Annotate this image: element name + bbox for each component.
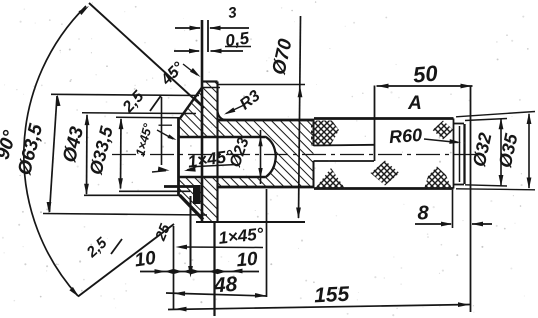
node dim50 arrow left	[377, 84, 389, 89]
wire flange top inner line	[203, 87, 220, 89]
svg-text:8: 8	[417, 203, 429, 225]
node 1x45 bottom leader arrow	[176, 245, 188, 250]
node dim8 arrow right	[472, 222, 484, 227]
component wood mark patch 4	[433, 121, 454, 140]
wire 1x45 rotated leader	[157, 130, 173, 139]
wire centerline (part axis)	[112, 154, 484, 156]
node dia70 arrow bottom	[296, 208, 301, 220]
component bore drill cone	[265, 137, 276, 178]
node dim3 arrow left	[190, 26, 202, 31]
node dia32 arrow top	[499, 118, 504, 130]
component wood mark patch 5	[424, 167, 452, 190]
wire dia43 extension top	[82, 112, 196, 115]
wire dia35 extension bottom	[456, 189, 535, 190]
node dim10 arrow e	[231, 269, 243, 274]
wire dim8 line left	[415, 223, 451, 225]
wire small vertical near face	[161, 97, 163, 165]
wire tip top edge	[454, 123, 465, 125]
node dim05 arrow right	[210, 49, 222, 54]
wire dia33.5 extension bottom	[119, 190, 190, 192]
wire head right face lower	[313, 161, 315, 187]
wire ext vertical flange face long	[213, 222, 215, 316]
wire dia32 extension bottom	[465, 185, 507, 186]
wire dia43 dimension line	[86, 115, 89, 194]
wire flange top edge	[202, 80, 218, 82]
component head section hatch	[179, 82, 314, 223]
wire dia63.5 dimension line	[50, 96, 58, 212]
wire tip chamfer line	[459, 126, 461, 182]
node dim10 tick c	[183, 269, 201, 274]
svg-text:10: 10	[133, 248, 157, 272]
wire flange bottom edge and dia70 extension	[196, 221, 305, 223]
node dim10 arrow a	[155, 269, 167, 274]
node dia33.5 arrow top	[119, 118, 124, 130]
wire head right face upper	[313, 120, 315, 146]
wire ext vertical cone base	[173, 226, 175, 309]
wire 2.5 upper tick	[150, 96, 161, 112]
node dia35 arrow bottom	[527, 178, 532, 190]
wire dia32 dimension line	[500, 119, 502, 186]
node dim05 arrow left	[189, 49, 201, 54]
wire dia63.5 extension top	[51, 94, 199, 95]
wire dim05 line left	[174, 50, 199, 52]
wire tang end cap and 50 extension	[374, 86, 376, 162]
wire dim3 line right	[210, 27, 249, 29]
component wood mark patch 3	[371, 161, 400, 186]
wire dia43 extension bottom	[84, 194, 178, 196]
node dia70 arrow top	[298, 86, 303, 98]
node dia43 arrow bottom	[84, 184, 89, 196]
wire bore mouth bottom thick line	[164, 185, 195, 188]
wire dim50 line	[377, 85, 473, 87]
wire dia23 dimension line	[260, 130, 262, 184]
node dim10 tick b	[165, 269, 183, 274]
wire dim48 line	[166, 293, 267, 296]
wire cone lower edge	[180, 195, 204, 220]
wire flange left face	[201, 20, 204, 222]
wire dia32 extension top	[465, 119, 507, 121]
wire flange step line 0.5	[207, 20, 209, 52]
node dim155 arrow right	[458, 302, 470, 307]
component wood mark patch 1	[311, 121, 339, 145]
node dia63.5 arrow bottom	[47, 202, 52, 214]
node 1x45 bore leader arrow	[184, 167, 196, 172]
node dia23 arrow top	[258, 136, 262, 147]
wire hub bottom edge	[218, 186, 315, 189]
wire dia70 extension top	[218, 84, 306, 86]
wire 1x45 bore leader	[187, 165, 236, 171]
wire dim05 line right	[211, 50, 244, 52]
node dim8 arrow left	[441, 222, 453, 227]
node dia32 arrow bottom	[499, 175, 504, 187]
wire dia33.5 extension top	[116, 116, 180, 119]
node R60 leader arrow	[449, 139, 461, 144]
wire tang bottom edge	[314, 160, 375, 162]
wire R3 leader	[226, 105, 244, 114]
wire dia33.5 dimension line	[120, 119, 123, 189]
wire handle top edge	[314, 117, 454, 120]
node bore mouth corner block	[193, 185, 201, 204]
wire 45deg leader	[183, 64, 197, 75]
wire dim8 extension	[452, 190, 454, 228]
wire dim05 label underline	[225, 46, 251, 48]
component wood mark patch 2	[315, 168, 345, 189]
wire right end extension line	[470, 86, 472, 313]
node dim10 tick d	[209, 269, 227, 274]
node dia35 arrow top	[527, 113, 532, 125]
wire tang top edge	[314, 144, 375, 147]
svg-text:А: А	[407, 93, 422, 114]
wire dim3 line left	[175, 27, 200, 29]
node dim50 arrow right	[461, 84, 473, 89]
wire cone edge extension upper (45 deg ray)	[89, 3, 204, 108]
wire hub top edge	[218, 119, 315, 122]
wire ext vertical hub 48	[266, 189, 268, 297]
wire handle bottom edge	[314, 187, 454, 190]
node arc arrow top	[79, 6, 90, 15]
wire tip step line	[453, 119, 455, 189]
node arc arrow bottom	[69, 287, 79, 297]
node mouth left arrow	[152, 167, 170, 173]
wire 2.5 lower tick	[111, 239, 122, 254]
wire R60 leader	[424, 139, 458, 143]
svg-text:48: 48	[212, 273, 238, 298]
node dim48 arrow right	[255, 293, 267, 298]
wire dim10 line	[140, 271, 259, 273]
wire flange right face	[216, 82, 218, 223]
node 45deg leader arrow	[190, 68, 201, 77]
node dim48 arrow left	[174, 291, 186, 296]
node dim3 arrow right	[209, 26, 221, 31]
wire cone front face	[177, 118, 180, 196]
wire ext vertical 25 with arrow	[190, 196, 192, 269]
wire 1x45 bottom leader	[184, 246, 263, 249]
wire tip bottom edge	[454, 184, 465, 186]
node 25 down arrow	[188, 266, 193, 278]
wire dim8 line right	[472, 223, 492, 225]
wire bore bottom wall	[179, 176, 266, 179]
wire dia63.5 extension bottom	[43, 214, 207, 216]
wire dia35 extension top	[456, 112, 535, 117]
node R3 leader arrow	[224, 108, 235, 115]
node dim155 arrow left	[175, 307, 187, 312]
wire cone edge extension lower (45 deg ray)	[78, 224, 174, 297]
node dia23 arrow bottom	[258, 168, 262, 179]
wire tip end face	[463, 124, 465, 184]
node dia63.5 arrow top	[56, 95, 61, 107]
svg-text:R60: R60	[388, 125, 422, 147]
wire small tick near face	[159, 124, 173, 126]
wire bore top wall	[179, 136, 266, 139]
node dia43 arrow top	[85, 114, 90, 126]
svg-text:155: 155	[314, 283, 351, 308]
wire dia70 dimension line	[299, 16, 301, 218]
wire hub fillet R3	[218, 111, 227, 120]
node dia33.5 arrow bottom	[118, 178, 123, 190]
wire cone upper edge	[180, 88, 203, 120]
wire dia35 dimension line	[528, 114, 530, 188]
node 1x45 rotated leader arrow	[168, 134, 177, 140]
svg-text:50: 50	[412, 60, 439, 87]
svg-text:0,5: 0,5	[224, 28, 251, 50]
wire 90 deg dimension arc	[24, 6, 86, 296]
wire dim155 line	[168, 305, 470, 310]
